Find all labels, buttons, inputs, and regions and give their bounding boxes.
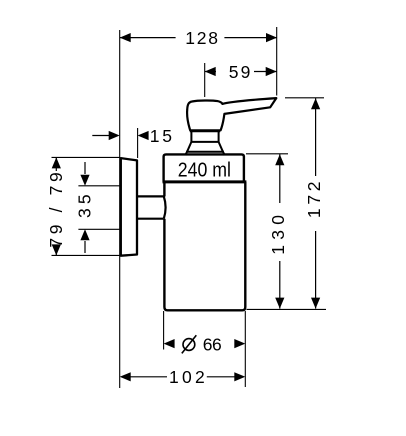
- wall plate (side view): [121, 158, 137, 256]
- extension line right of pump (for 128/59): [276, 27, 278, 96]
- svg-text:240 ml: 240 ml: [178, 160, 231, 182]
- dimension 15: [92, 126, 172, 158]
- svg-text:172: 172: [304, 182, 324, 219]
- dimension 102: [120, 367, 246, 387]
- dimension 130: [246, 154, 288, 309]
- dimension 79 / 79: [46, 157, 120, 255]
- pump head and lever: [187, 98, 276, 130]
- dimension 35: [74, 162, 120, 253]
- svg-text:128: 128: [185, 28, 218, 48]
- pump neck rings: [185, 131, 225, 155]
- dimension 59: [205, 62, 277, 97]
- dimension 128: [120, 28, 277, 48]
- dimension Ø 66: [164, 311, 246, 387]
- svg-text:66: 66: [203, 334, 222, 354]
- bottle label band with 240 ml: [163, 154, 247, 182]
- bottle body: [164, 182, 245, 310]
- wall extension line: [119, 30, 121, 388]
- svg-text:102: 102: [169, 367, 205, 387]
- svg-text:130: 130: [268, 215, 288, 255]
- dimension 172: [247, 98, 327, 310]
- mounting arm: [138, 196, 166, 218]
